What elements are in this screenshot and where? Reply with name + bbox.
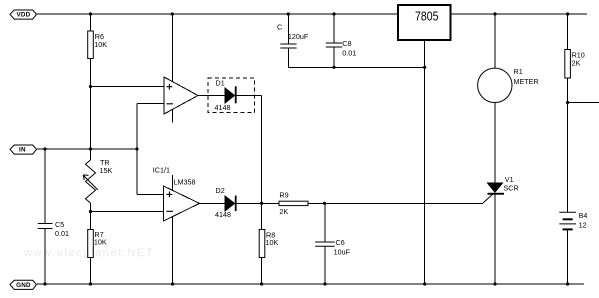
wire opamp1 V- stub [172, 110, 174, 123]
wire R6/TR/R7 column x=90.5 [90, 14, 92, 284]
svg-text:VDD: VDD [16, 12, 30, 19]
svg-text:C: C [277, 23, 282, 32]
diode D1 with dashed box [208, 78, 255, 112]
capacitor C8 [326, 39, 357, 58]
svg-text:SCR: SCR [504, 184, 519, 193]
wire C8 column [333, 14, 335, 67]
wire R8 column [261, 203, 263, 284]
wire C5 column x=45 [44, 149, 46, 284]
svg-text:0.01: 0.01 [55, 229, 69, 238]
resistor R8 [259, 230, 278, 258]
svg-text:R9: R9 [279, 190, 288, 199]
thyristor V1 SCR [488, 175, 519, 195]
svg-text:C5: C5 [55, 220, 64, 229]
svg-text:R1: R1 [514, 67, 523, 76]
svg-text:7805: 7805 [415, 10, 439, 24]
svg-text:2K: 2K [572, 59, 581, 68]
wire cap ground bus [288, 66, 424, 68]
svg-text:METER: METER [514, 77, 539, 86]
svg-text:GND: GND [16, 282, 31, 289]
resistor R10 [565, 50, 585, 79]
wire bottom rail (GND) [37, 283, 584, 285]
wire R10 stub to edge [568, 102, 599, 104]
wire opamp2 +in [137, 194, 164, 196]
wire opamp1 V+ pin [171, 14, 173, 82]
wire opamp2 -in [91, 211, 164, 213]
diode D2 [215, 186, 237, 219]
wire meter/SCR column x=495 [494, 14, 496, 284]
svg-text:10K: 10K [266, 238, 279, 247]
svg-text:D1: D1 [216, 79, 225, 88]
wire top rail right [451, 13, 588, 15]
svg-text:120uF: 120uF [288, 32, 309, 41]
svg-text:B4: B4 [579, 211, 588, 220]
wire opamp1 -in [137, 104, 164, 195]
resistor R7 [88, 230, 107, 258]
wire opamp1 +in [91, 86, 165, 88]
svg-text:10uF: 10uF [334, 248, 351, 257]
node IN flag [10, 145, 37, 154]
svg-text:0.01: 0.01 [342, 49, 356, 58]
svg-text:IC1/1: IC1/1 [153, 166, 170, 175]
node VDD flag [10, 10, 37, 19]
node GND flag [10, 280, 37, 289]
op-amp U1b IC1/1 LM358 [153, 166, 200, 221]
resistor R9 [279, 190, 308, 215]
meter R1 [478, 67, 539, 102]
wire opamp2 V- to GND [172, 217, 174, 284]
wire C6 column [324, 203, 326, 284]
wire D1 out, down to node [237, 96, 262, 204]
wire IN line [37, 148, 137, 150]
op-amp U1a (top) [164, 77, 198, 114]
wire opamp2 out to D2 [200, 202, 226, 204]
svg-text:C6: C6 [336, 238, 345, 247]
wire node to R9 right, to C6 junction [308, 202, 325, 204]
svg-text:LM358: LM358 [174, 178, 196, 187]
svg-text:12: 12 [579, 221, 587, 230]
svg-text:10K: 10K [94, 40, 107, 49]
resistor R6 [88, 31, 108, 59]
wire opamp2 V+ stub [172, 175, 174, 190]
wire R10/battery column [567, 14, 569, 284]
trimmer TR [83, 158, 112, 203]
svg-text:10K: 10K [94, 238, 107, 247]
wire opamp1 out to D1 [198, 95, 225, 97]
capacitor C6 [315, 238, 350, 256]
wire SCR gate horizontal [325, 202, 484, 204]
svg-text:D2: D2 [216, 186, 225, 195]
wire D2 out to node [237, 202, 280, 204]
battery B4 12V [559, 211, 587, 230]
svg-text:15K: 15K [100, 166, 113, 175]
svg-text:4148: 4148 [215, 103, 231, 112]
svg-text:4148: 4148 [215, 210, 231, 219]
wire 7805 gnd pin [424, 40, 426, 284]
svg-text:C8: C8 [342, 39, 351, 48]
wire top rail left [37, 13, 398, 15]
wire SCR gate diagonal [483, 194, 493, 203]
svg-text:IN: IN [19, 147, 26, 154]
capacitor C5 [38, 220, 69, 238]
wire C 120uF column [287, 14, 289, 67]
svg-text:2K: 2K [279, 207, 288, 216]
regulator 7805 [398, 5, 451, 40]
capacitor C 120uF [277, 23, 309, 49]
